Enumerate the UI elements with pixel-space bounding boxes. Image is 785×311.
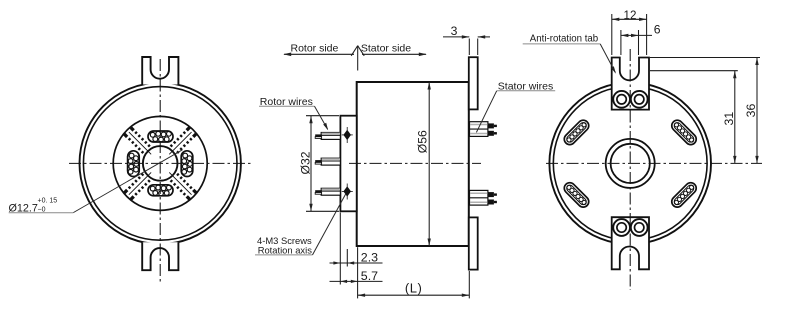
horizontal center line xyxy=(546,162,762,164)
svg-text:(L): (L) xyxy=(405,281,422,296)
left wire slot xyxy=(128,151,140,177)
svg-text:Ø32: Ø32 xyxy=(299,151,313,174)
bore outer circle xyxy=(606,139,655,188)
bore inner circle xyxy=(611,144,650,183)
svg-text:+0. 15: +0. 15 xyxy=(38,198,58,205)
svg-text:6: 6 xyxy=(654,22,661,36)
svg-text:3: 3 xyxy=(451,24,458,38)
dim O56 line xyxy=(428,82,430,246)
knurl band 45 deg upper-right xyxy=(165,126,197,158)
bore label underline xyxy=(9,212,74,214)
top bracket screw holes xyxy=(613,91,630,108)
svg-text:Rotation axis: Rotation axis xyxy=(258,244,313,255)
horizontal center line xyxy=(349,162,481,164)
rotor wire 2 xyxy=(315,158,340,165)
dim 6 line xyxy=(621,34,652,36)
svg-text:Ø56: Ø56 xyxy=(416,130,430,153)
top wire slot xyxy=(148,131,173,142)
stator wire set bottom xyxy=(470,190,497,205)
stator slot upper-left xyxy=(562,118,591,147)
leader line for bore label xyxy=(73,150,182,213)
rotor flange rectangle xyxy=(340,116,356,212)
svg-text:31: 31 xyxy=(722,112,736,126)
svg-text:Ø12.7: Ø12.7 xyxy=(9,203,38,215)
vertical center line xyxy=(629,49,631,290)
svg-text:2.3: 2.3 xyxy=(361,250,378,264)
svg-text:Anti-rotation tab: Anti-rotation tab xyxy=(530,34,598,45)
bottom bracket with fork slot xyxy=(612,217,649,269)
knurl band lower-left xyxy=(123,168,155,200)
dim 3 lines and arrows xyxy=(443,36,469,38)
svg-text:36: 36 xyxy=(744,104,758,118)
stator side arrow xyxy=(362,53,426,55)
dim (L) xyxy=(358,294,470,296)
dim 5.7 xyxy=(330,280,383,282)
M3 screw diamond bottom xyxy=(342,184,353,200)
vertical center line xyxy=(159,59,161,282)
dim 31 extension line xyxy=(650,70,738,72)
top bracket with fork slot xyxy=(612,58,649,110)
stator wire set top xyxy=(470,122,497,137)
stator slot lower-right xyxy=(670,180,699,209)
anti-rotation tab side (top) xyxy=(469,57,478,109)
svg-text:5.7: 5.7 xyxy=(361,269,378,283)
top tab (U fork) xyxy=(142,57,178,85)
dim 31 line xyxy=(734,71,736,164)
main body rectangle xyxy=(357,82,469,246)
outer circle xyxy=(549,83,711,245)
svg-text:Stator side: Stator side xyxy=(361,42,411,54)
dim 36 line xyxy=(756,58,758,164)
knurl band upper-left xyxy=(123,126,155,158)
bottom extension lines xyxy=(339,213,341,285)
dim 3 extension lines xyxy=(468,39,470,56)
dim 2.3 xyxy=(330,262,383,264)
horizontal center line xyxy=(69,162,251,164)
svg-text:Rotor side: Rotor side xyxy=(291,42,339,54)
svg-text:−0: −0 xyxy=(38,207,46,214)
rotor side / stator side divider xyxy=(351,46,364,71)
bottom wire slot xyxy=(148,185,173,196)
stator slot upper-right xyxy=(670,118,699,147)
right wire slot xyxy=(181,151,193,177)
dim 12 line xyxy=(612,18,647,20)
knurl band lower-right xyxy=(165,168,197,200)
rim circle xyxy=(553,86,707,240)
rotor wire 1 xyxy=(315,133,340,140)
dim O32 line xyxy=(310,116,312,212)
dim O32 extension lines xyxy=(306,115,339,117)
svg-text:12: 12 xyxy=(624,9,637,22)
anti-rotation tab side (bottom) xyxy=(469,217,478,269)
rotor wire 3 xyxy=(315,188,340,195)
M3 screw diamond top xyxy=(342,127,353,143)
bore circle xyxy=(143,146,178,181)
bottom tab (U fork) xyxy=(142,242,178,270)
dim 12 extension lines xyxy=(611,14,613,55)
rotor side arrow xyxy=(284,53,354,55)
stator slot lower-left xyxy=(562,180,591,209)
mid circle (slot circle) xyxy=(113,116,207,210)
dim 36 extension line top xyxy=(650,57,760,59)
rim circle xyxy=(83,87,237,241)
bottom bracket screw holes xyxy=(613,219,630,236)
outer circle xyxy=(80,83,241,244)
dim 6 extension lines xyxy=(620,30,622,55)
